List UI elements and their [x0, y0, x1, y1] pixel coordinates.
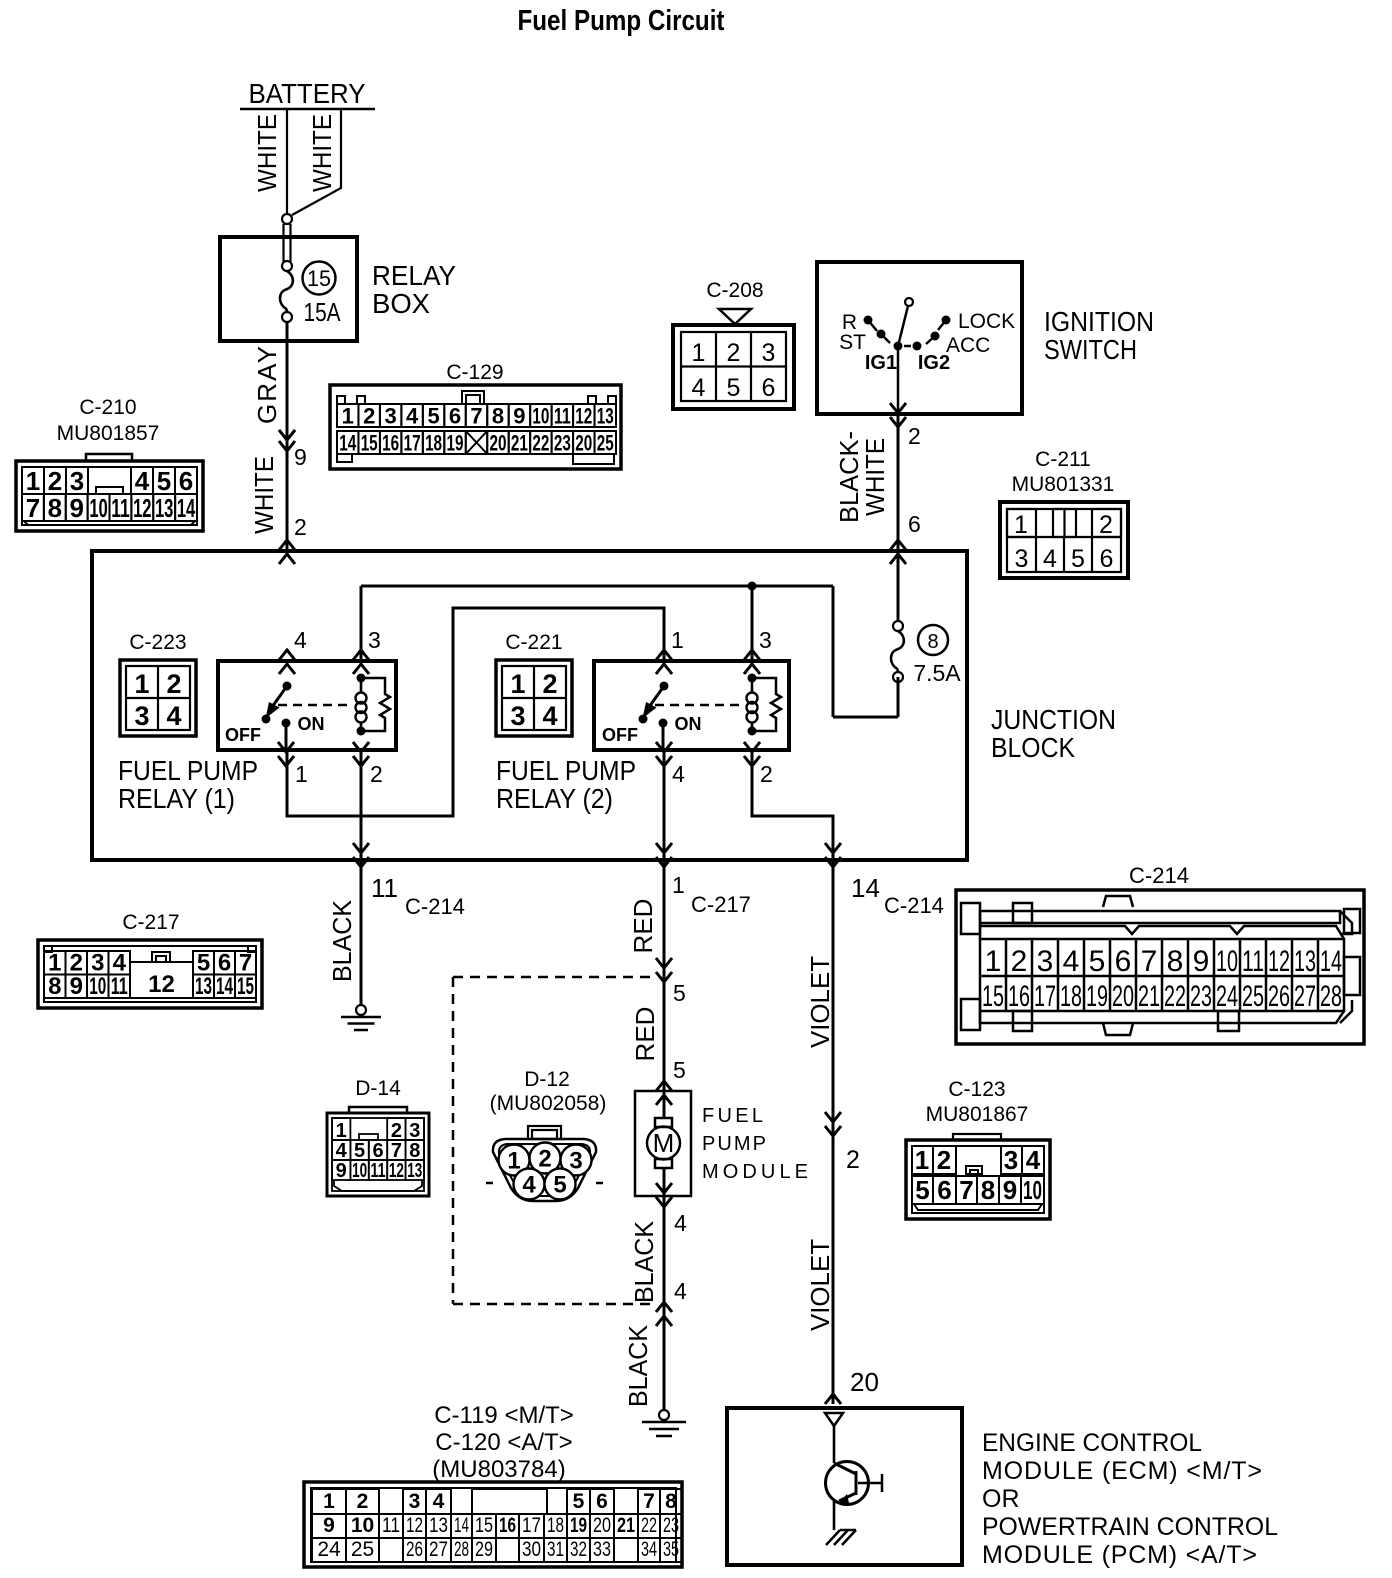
svg-text:C-208: C-208	[706, 279, 763, 302]
svg-text:10: 10	[89, 973, 106, 1000]
svg-text:BLOCK: BLOCK	[991, 732, 1075, 763]
svg-text:WHITE: WHITE	[307, 114, 337, 192]
svg-text:6: 6	[1115, 945, 1132, 978]
svg-text:5: 5	[673, 980, 686, 1006]
svg-text:34: 34	[641, 1538, 657, 1561]
svg-text:14: 14	[851, 873, 880, 903]
svg-text:7.5A: 7.5A	[913, 660, 961, 686]
svg-text:12: 12	[575, 404, 592, 429]
svg-text:3: 3	[409, 1120, 420, 1142]
svg-text:1: 1	[507, 1148, 520, 1175]
svg-text:5: 5	[553, 1172, 566, 1199]
svg-text:22: 22	[532, 431, 549, 456]
svg-text:PUMP: PUMP	[702, 1133, 766, 1155]
svg-text:17: 17	[404, 431, 421, 456]
svg-text:Fuel Pump Circuit: Fuel Pump Circuit	[518, 5, 725, 37]
svg-text:2: 2	[908, 423, 921, 449]
svg-text:4: 4	[294, 627, 307, 653]
svg-text:C-123: C-123	[948, 1078, 1005, 1101]
svg-text:3: 3	[70, 466, 84, 496]
svg-text:18: 18	[1060, 980, 1082, 1013]
svg-text:20: 20	[1112, 980, 1134, 1013]
svg-text:4: 4	[522, 1172, 536, 1199]
svg-text:BLACK: BLACK	[629, 1220, 659, 1303]
svg-text:2: 2	[294, 514, 307, 540]
svg-text:C-119 <M/T>: C-119 <M/T>	[434, 1402, 574, 1429]
svg-text:9: 9	[336, 1160, 347, 1182]
svg-text:1: 1	[671, 627, 684, 653]
svg-text:12: 12	[133, 493, 152, 523]
svg-text:23: 23	[1190, 980, 1212, 1013]
svg-text:BLACK: BLACK	[623, 1324, 653, 1407]
svg-text:10: 10	[1216, 945, 1238, 978]
svg-text:SWITCH: SWITCH	[1044, 334, 1137, 365]
svg-text:6: 6	[937, 1175, 951, 1205]
svg-text:19: 19	[1086, 980, 1108, 1013]
svg-text:MODULE (PCM) <A/T>: MODULE (PCM) <A/T>	[982, 1541, 1257, 1569]
svg-text:(MU803784): (MU803784)	[432, 1456, 565, 1483]
svg-text:1: 1	[692, 339, 706, 367]
svg-text:33: 33	[593, 1538, 611, 1561]
svg-text:15: 15	[361, 431, 378, 456]
svg-text:19: 19	[570, 1514, 587, 1537]
svg-text:VIOLET: VIOLET	[805, 1239, 835, 1331]
svg-text:8: 8	[665, 1490, 677, 1513]
svg-text:D-12: D-12	[524, 1068, 570, 1091]
svg-text:27: 27	[1294, 980, 1316, 1013]
svg-text:C-211: C-211	[1035, 448, 1091, 471]
svg-text:LOCK: LOCK	[958, 310, 1015, 333]
svg-text:BLACK: BLACK	[327, 899, 357, 982]
svg-text:4: 4	[406, 404, 419, 429]
svg-text:3: 3	[409, 1490, 421, 1513]
svg-text:32: 32	[570, 1538, 587, 1561]
svg-text:16: 16	[1008, 980, 1030, 1013]
svg-text:5: 5	[157, 466, 171, 496]
svg-text:3: 3	[385, 404, 397, 429]
svg-text:4: 4	[674, 1210, 687, 1236]
svg-text:C-223: C-223	[129, 631, 186, 654]
svg-text:12: 12	[148, 971, 175, 998]
svg-text:6: 6	[596, 1490, 608, 1513]
svg-text:RELAY (2): RELAY (2)	[496, 783, 613, 814]
svg-text:6: 6	[179, 466, 193, 496]
svg-text:2: 2	[363, 404, 375, 429]
svg-text:17: 17	[1034, 980, 1056, 1013]
svg-text:3: 3	[762, 339, 776, 367]
svg-text:17: 17	[522, 1514, 541, 1537]
svg-text:21: 21	[1138, 980, 1160, 1013]
svg-text:6: 6	[762, 374, 776, 402]
svg-text:10: 10	[89, 493, 108, 523]
svg-text:8: 8	[409, 1140, 420, 1162]
svg-text:12: 12	[406, 1514, 423, 1537]
svg-text:9: 9	[70, 973, 83, 1000]
svg-text:20: 20	[593, 1514, 611, 1537]
svg-text:13: 13	[155, 493, 174, 523]
svg-text:4: 4	[1026, 1145, 1041, 1175]
svg-text:5: 5	[354, 1140, 365, 1162]
svg-text:RED: RED	[630, 1007, 660, 1062]
svg-text:9: 9	[1193, 945, 1210, 978]
svg-text:1: 1	[985, 945, 1002, 978]
svg-text:6: 6	[449, 404, 461, 429]
svg-text:11: 11	[371, 1160, 386, 1182]
svg-text:WHITE: WHITE	[252, 114, 282, 192]
svg-text:3: 3	[1015, 545, 1029, 573]
svg-text:21: 21	[617, 1514, 635, 1537]
svg-text:6: 6	[908, 511, 921, 537]
svg-text:16: 16	[499, 1514, 516, 1537]
svg-text:30: 30	[522, 1538, 541, 1561]
svg-text:11: 11	[1242, 945, 1264, 978]
svg-text:25: 25	[351, 1538, 374, 1561]
svg-text:ST: ST	[839, 331, 866, 354]
svg-text:GRAY: GRAY	[252, 346, 282, 424]
svg-text:2: 2	[542, 669, 557, 699]
svg-text:3: 3	[134, 701, 149, 731]
svg-text:28: 28	[1320, 980, 1342, 1013]
svg-text:9: 9	[1003, 1175, 1017, 1205]
svg-text:C-217: C-217	[122, 911, 179, 934]
svg-text:3: 3	[759, 627, 772, 653]
svg-text:2: 2	[357, 1490, 369, 1513]
svg-text:C-120 <A/T>: C-120 <A/T>	[435, 1429, 572, 1456]
svg-text:OFF: OFF	[225, 725, 261, 745]
svg-text:C-210: C-210	[79, 396, 136, 419]
svg-text:13: 13	[429, 1514, 448, 1537]
svg-text:10: 10	[351, 1514, 374, 1537]
svg-text:FUEL PUMP: FUEL PUMP	[118, 755, 258, 786]
svg-text:IG1: IG1	[865, 352, 897, 374]
svg-text:4: 4	[692, 374, 706, 402]
svg-text:5: 5	[1089, 945, 1106, 978]
svg-text:9: 9	[513, 404, 525, 429]
svg-text:2: 2	[48, 466, 62, 496]
svg-text:13: 13	[1294, 945, 1316, 978]
svg-text:IG2: IG2	[918, 352, 950, 374]
svg-text:15: 15	[237, 973, 254, 1000]
svg-text:13: 13	[407, 1160, 422, 1182]
svg-text:C-129: C-129	[446, 361, 503, 384]
svg-text:ON: ON	[298, 714, 325, 734]
svg-text:14: 14	[216, 973, 233, 1000]
svg-text:18: 18	[547, 1514, 564, 1537]
svg-text:8: 8	[927, 631, 938, 653]
svg-text:RELAY (1): RELAY (1)	[118, 783, 235, 814]
svg-text:2: 2	[1099, 511, 1113, 539]
svg-text:C-214: C-214	[884, 893, 944, 918]
svg-text:(MU802058): (MU802058)	[490, 1092, 607, 1115]
svg-text:22: 22	[641, 1514, 657, 1537]
svg-text:8: 8	[1167, 945, 1184, 978]
svg-text:8: 8	[48, 493, 62, 523]
svg-text:ACC: ACC	[946, 334, 990, 357]
svg-text:10: 10	[532, 404, 549, 429]
svg-text:OR: OR	[982, 1485, 1020, 1513]
svg-text:11: 11	[111, 973, 128, 1000]
svg-text:25: 25	[597, 431, 614, 456]
svg-text:C-221: C-221	[505, 631, 562, 654]
svg-text:1: 1	[510, 669, 525, 699]
svg-text:1: 1	[1014, 511, 1028, 539]
svg-text:6: 6	[372, 1140, 383, 1162]
svg-text:M: M	[653, 1128, 675, 1158]
svg-text:8: 8	[492, 404, 504, 429]
svg-text:12: 12	[1268, 945, 1290, 978]
svg-text:OFF: OFF	[602, 725, 638, 745]
svg-text:14: 14	[1320, 945, 1342, 978]
svg-text:JUNCTION: JUNCTION	[991, 704, 1116, 735]
svg-text:3: 3	[510, 701, 525, 731]
svg-text:7: 7	[959, 1175, 973, 1205]
svg-text:1: 1	[323, 1490, 335, 1513]
svg-text:14: 14	[339, 431, 357, 456]
svg-text:27: 27	[429, 1538, 448, 1561]
svg-text:4: 4	[1063, 945, 1080, 978]
svg-text:RELAY: RELAY	[372, 260, 456, 291]
svg-text:MODULE (ECM) <M/T>: MODULE (ECM) <M/T>	[982, 1457, 1262, 1485]
svg-text:4: 4	[336, 1140, 348, 1162]
svg-text:25: 25	[1242, 980, 1264, 1013]
svg-text:5: 5	[727, 374, 741, 402]
svg-text:1: 1	[295, 761, 308, 787]
svg-text:D-14: D-14	[355, 1077, 401, 1100]
svg-text:11: 11	[371, 873, 398, 903]
svg-text:7: 7	[643, 1490, 655, 1513]
svg-text:11: 11	[554, 404, 571, 429]
svg-text:ENGINE CONTROL: ENGINE CONTROL	[982, 1429, 1202, 1457]
svg-text:2: 2	[1011, 945, 1028, 978]
svg-text:22: 22	[1164, 980, 1186, 1013]
svg-text:14: 14	[454, 1514, 469, 1537]
svg-text:15A: 15A	[304, 297, 342, 327]
svg-text:23: 23	[663, 1514, 679, 1537]
svg-text:7: 7	[1141, 945, 1158, 978]
svg-text:WHITE: WHITE	[249, 456, 279, 534]
svg-text:1: 1	[342, 404, 354, 429]
svg-text:5: 5	[673, 1057, 686, 1083]
svg-text:9: 9	[323, 1514, 335, 1537]
svg-text:2: 2	[760, 761, 773, 787]
svg-text:12: 12	[389, 1160, 404, 1182]
svg-text:4: 4	[166, 701, 181, 731]
svg-text:26: 26	[1268, 980, 1290, 1013]
svg-text:11: 11	[111, 493, 130, 523]
svg-text:IGNITION: IGNITION	[1044, 306, 1154, 337]
svg-text:RED: RED	[628, 899, 658, 954]
svg-text:15: 15	[307, 266, 331, 291]
svg-text:29: 29	[475, 1538, 493, 1561]
svg-text:MU801331: MU801331	[1012, 473, 1115, 496]
svg-text:9: 9	[294, 444, 307, 470]
svg-text:7: 7	[391, 1140, 402, 1162]
svg-text:5: 5	[1071, 545, 1085, 573]
svg-text:2: 2	[937, 1145, 951, 1175]
svg-text:1: 1	[336, 1120, 347, 1142]
svg-text:4: 4	[672, 761, 685, 787]
svg-text:C-214: C-214	[405, 894, 465, 919]
svg-text:8: 8	[981, 1175, 995, 1205]
svg-text:1: 1	[672, 872, 685, 898]
svg-text:31: 31	[547, 1538, 564, 1561]
svg-text:5: 5	[915, 1175, 929, 1205]
svg-text:2: 2	[538, 1146, 551, 1173]
svg-text:7: 7	[26, 493, 40, 523]
svg-text:20: 20	[575, 431, 592, 456]
svg-text:8: 8	[48, 973, 61, 1000]
svg-text:2: 2	[370, 761, 383, 787]
svg-text:4: 4	[135, 466, 150, 496]
svg-text:26: 26	[406, 1538, 423, 1561]
svg-text:BATTERY: BATTERY	[249, 78, 366, 109]
svg-text:WHITE: WHITE	[860, 438, 890, 516]
svg-text:10: 10	[352, 1160, 367, 1182]
svg-text:15: 15	[982, 980, 1004, 1013]
svg-text:FUEL PUMP: FUEL PUMP	[496, 755, 636, 786]
svg-text:1: 1	[134, 669, 149, 699]
svg-text:9: 9	[69, 493, 83, 523]
svg-text:VIOLET: VIOLET	[805, 956, 835, 1048]
svg-text:21: 21	[511, 431, 528, 456]
svg-text:4: 4	[674, 1278, 687, 1304]
svg-text:23: 23	[554, 431, 571, 456]
svg-text:13: 13	[597, 404, 614, 429]
svg-text:4: 4	[1043, 545, 1057, 573]
svg-text:6: 6	[1100, 545, 1114, 573]
svg-text:2: 2	[391, 1120, 402, 1142]
svg-text:MU801857: MU801857	[57, 422, 160, 445]
svg-text:C-214: C-214	[1129, 863, 1189, 888]
svg-text:1: 1	[915, 1145, 929, 1175]
svg-text:1: 1	[26, 466, 40, 496]
svg-text:28: 28	[454, 1538, 469, 1561]
svg-text:11: 11	[382, 1514, 400, 1537]
svg-text:3: 3	[569, 1148, 582, 1175]
svg-text:4: 4	[433, 1490, 445, 1513]
svg-text:BOX: BOX	[372, 288, 430, 319]
svg-text:13: 13	[195, 973, 212, 1000]
svg-text:10: 10	[1023, 1175, 1042, 1205]
svg-text:5: 5	[427, 404, 439, 429]
svg-text:POWERTRAIN CONTROL: POWERTRAIN CONTROL	[982, 1513, 1278, 1541]
svg-text:3: 3	[368, 627, 381, 653]
svg-text:3: 3	[1004, 1145, 1018, 1175]
svg-text:7: 7	[470, 404, 482, 429]
svg-text:MU801867: MU801867	[926, 1103, 1029, 1126]
svg-text:2: 2	[727, 339, 741, 367]
svg-text:3: 3	[1037, 945, 1054, 978]
svg-text:35: 35	[663, 1538, 679, 1561]
svg-text:ON: ON	[675, 714, 702, 734]
svg-text:19: 19	[447, 431, 464, 456]
svg-text:2: 2	[846, 1146, 860, 1174]
svg-text:18: 18	[425, 431, 442, 456]
svg-text:20: 20	[489, 431, 506, 456]
svg-text:4: 4	[542, 701, 557, 731]
svg-text:16: 16	[382, 431, 399, 456]
svg-text:24: 24	[317, 1538, 341, 1561]
svg-text:24: 24	[1216, 980, 1238, 1013]
svg-text:20: 20	[850, 1367, 879, 1397]
svg-text:2: 2	[166, 669, 181, 699]
svg-text:C-217: C-217	[691, 892, 751, 917]
svg-text:14: 14	[177, 493, 196, 523]
svg-text:5: 5	[573, 1490, 585, 1513]
svg-text:15: 15	[475, 1514, 493, 1537]
